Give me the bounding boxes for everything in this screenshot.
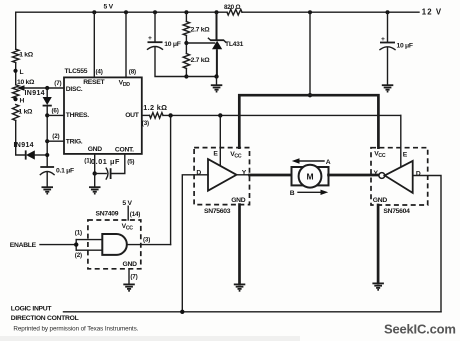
svg-text:DIRECTION CONTROL: DIRECTION CONTROL xyxy=(11,315,79,322)
wire THRES pin 6 xyxy=(47,114,64,116)
wire pin1 node to ground xyxy=(94,174,96,188)
svg-text:+: + xyxy=(148,35,152,42)
ground under TL431 xyxy=(211,85,223,91)
node OUT junction E1 xyxy=(218,113,222,117)
node ENABLE split xyxy=(74,242,78,246)
node on rail 12V cap xyxy=(386,10,390,14)
wire Y out SN75603 thick to motor xyxy=(250,174,292,177)
diode IN914 D1 vertical xyxy=(25,88,52,167)
resistor 820 ohm xyxy=(227,9,242,15)
capacitor 0.1 uF xyxy=(40,167,74,187)
svg-text:2.7 kΩ: 2.7 kΩ xyxy=(191,27,211,34)
svg-text:GND: GND xyxy=(88,146,103,153)
wire 12V top rail xyxy=(242,11,419,13)
driver SN75604 xyxy=(371,148,428,215)
node pin1 cap junction xyxy=(93,171,97,175)
svg-text:GND: GND xyxy=(373,197,388,204)
svg-text:TLC555: TLC555 xyxy=(65,68,88,75)
svg-text:H: H xyxy=(20,97,25,104)
wire REF to TL431 xyxy=(186,42,214,44)
svg-text:M: M xyxy=(306,171,313,181)
node TL431 anode xyxy=(214,74,218,78)
wire VDD pin 8 xyxy=(125,12,127,77)
svg-text:B: B xyxy=(290,190,295,197)
gate SN7409 xyxy=(75,200,141,269)
node TRIG junction xyxy=(45,139,49,143)
svg-text:ENABLE: ENABLE xyxy=(10,242,37,249)
diode IN914 D2 horizontal xyxy=(14,142,48,160)
node diode anode junction xyxy=(45,153,49,157)
wire Y out SN75603 thin xyxy=(237,174,250,176)
wire motor to SN75604 thick xyxy=(329,174,379,177)
wire GND SN75604 xyxy=(377,205,380,283)
svg-text:(2): (2) xyxy=(52,133,59,140)
scan smudge bottom xyxy=(0,336,300,341)
svg-text:IN914: IN914 xyxy=(25,90,45,97)
node on rail pin8 xyxy=(124,10,128,14)
node on rail 12V vcc xyxy=(308,10,312,14)
capacitor 0.01 uF xyxy=(91,154,134,179)
ground under SN75603 xyxy=(234,284,246,290)
svg-text:(4): (4) xyxy=(96,68,103,75)
wire to node L xyxy=(15,63,17,85)
wire 12V drop to VCC rail xyxy=(309,12,311,95)
svg-text:(7): (7) xyxy=(54,80,61,87)
node divider bottom xyxy=(184,74,188,78)
potentiometer 10 kohm xyxy=(13,79,36,98)
wire E pin SN75604 drop xyxy=(400,115,402,166)
wire VCC rail thick xyxy=(239,95,378,148)
wire 5V top rail xyxy=(16,11,227,13)
svg-text:(5): (5) xyxy=(127,158,134,165)
resistor R 1 kohm upper xyxy=(13,49,19,62)
IC U1 TLC555 xyxy=(64,68,142,154)
svg-text:(3): (3) xyxy=(143,236,150,243)
wire gate GND pin 7 xyxy=(128,269,130,284)
svg-text:2.7 kΩ: 2.7 kΩ xyxy=(191,57,211,64)
wire OUT line to E pins xyxy=(163,114,401,116)
svg-text:(3): (3) xyxy=(142,120,149,127)
wire TL431 to ground xyxy=(216,77,218,86)
svg-text:1.2 kΩ: 1.2 kΩ xyxy=(143,103,167,112)
regulator TL431 xyxy=(208,12,243,76)
svg-text:A: A xyxy=(326,159,331,166)
wire OUT node to gate output xyxy=(170,115,172,244)
arrow B direction xyxy=(290,190,328,197)
wire TRIG pin 2 xyxy=(47,140,64,142)
svg-text:DISC.: DISC. xyxy=(66,86,83,93)
node divider mid xyxy=(184,41,188,45)
svg-text:10 μF: 10 μF xyxy=(397,42,413,49)
svg-text:THRES.: THRES. xyxy=(66,112,89,119)
svg-text:1 kΩ: 1 kΩ xyxy=(19,108,34,115)
node on rail cap10u xyxy=(153,10,157,14)
ground under 10uF right xyxy=(382,85,394,91)
wire direction control line xyxy=(64,311,442,313)
node OUT junction A xyxy=(168,113,172,117)
svg-text:LOGIC INPUT: LOGIC INPUT xyxy=(11,306,53,313)
node VCC rail junction xyxy=(308,93,312,97)
svg-text:5 V: 5 V xyxy=(122,200,132,207)
wire gate output pin 3 xyxy=(127,244,171,246)
svg-text:(8): (8) xyxy=(129,68,136,75)
svg-text:SN75603: SN75603 xyxy=(204,208,231,215)
ground under SN75604 xyxy=(372,283,384,289)
svg-text:5 V: 5 V xyxy=(104,4,114,11)
svg-text:(7): (7) xyxy=(130,273,137,280)
svg-text:Reprinted by permission of Tex: Reprinted by permission of Texas Instrum… xyxy=(13,326,138,333)
svg-text:GND: GND xyxy=(123,261,138,268)
resistor R 1 kohm lower xyxy=(13,105,19,121)
svg-text:TRIG.: TRIG. xyxy=(66,138,83,145)
svg-text:(14): (14) xyxy=(130,211,141,218)
node on rail divider xyxy=(184,10,188,14)
svg-text:12 V: 12 V xyxy=(422,8,442,17)
node diode top on wiper line xyxy=(45,86,49,90)
arrow A direction xyxy=(292,158,331,166)
svg-text:1 kΩ: 1 kΩ xyxy=(19,52,34,59)
svg-text:0.01 μF: 0.01 μF xyxy=(91,157,120,166)
resistor 2.7 kohm upper xyxy=(183,12,210,53)
capacitor 10 uF left xyxy=(148,12,187,76)
resistor 2.7 kohm lower xyxy=(183,54,210,77)
svg-text:CONT.: CONT. xyxy=(115,146,134,153)
svg-text:SN75604: SN75604 xyxy=(383,208,410,215)
wire RESET pin 4 xyxy=(93,12,95,77)
ground under SN7409 xyxy=(123,284,135,290)
svg-text:OUT: OUT xyxy=(125,112,140,119)
node direction junction xyxy=(180,310,184,314)
svg-text:820 Ω: 820 Ω xyxy=(224,4,240,11)
svg-text:TL431: TL431 xyxy=(225,41,244,48)
svg-text:(1): (1) xyxy=(75,229,82,236)
svg-text:D: D xyxy=(416,170,421,177)
wire wiper to DISC pin 7 xyxy=(23,87,64,89)
wire bottom divider to TL431 anode xyxy=(186,76,216,78)
motor M xyxy=(292,165,329,188)
svg-text:10 kΩ: 10 kΩ xyxy=(17,79,35,86)
svg-text:0.1 μF: 0.1 μF xyxy=(56,168,74,175)
node THRES junction xyxy=(45,113,49,117)
node L xyxy=(13,69,17,73)
wire left drop to diode corner xyxy=(16,121,26,156)
ground under 0.1uF xyxy=(42,187,54,193)
svg-text:(6): (6) xyxy=(52,107,59,114)
wire ENABLE input xyxy=(40,244,76,246)
svg-text:(2): (2) xyxy=(75,252,82,259)
capacitor 10 uF right xyxy=(380,12,413,85)
svg-text:L: L xyxy=(20,69,24,76)
driver SN75603 xyxy=(194,148,249,215)
svg-text:RESET: RESET xyxy=(83,79,105,86)
svg-text:GND: GND xyxy=(231,197,246,204)
wire D input SN75603 xyxy=(182,175,208,312)
wire D input SN75604 xyxy=(413,176,441,312)
resistor 1.2 kohm xyxy=(142,103,168,118)
wire left drop xyxy=(15,12,17,49)
node on rail TL431 xyxy=(215,10,219,14)
node H xyxy=(13,97,17,101)
svg-text:SN7409: SN7409 xyxy=(96,210,119,217)
svg-text:SeekIC.com: SeekIC.com xyxy=(384,322,456,337)
wire GND SN75603 xyxy=(238,205,241,285)
wire GND pin 1 xyxy=(94,154,96,174)
svg-text:10 μF: 10 μF xyxy=(164,41,180,48)
node on rail pin4 xyxy=(92,10,96,14)
wire E pin SN75603 drop xyxy=(219,115,221,165)
ground under pin 1 xyxy=(89,187,101,193)
svg-text:IN914: IN914 xyxy=(14,142,34,149)
